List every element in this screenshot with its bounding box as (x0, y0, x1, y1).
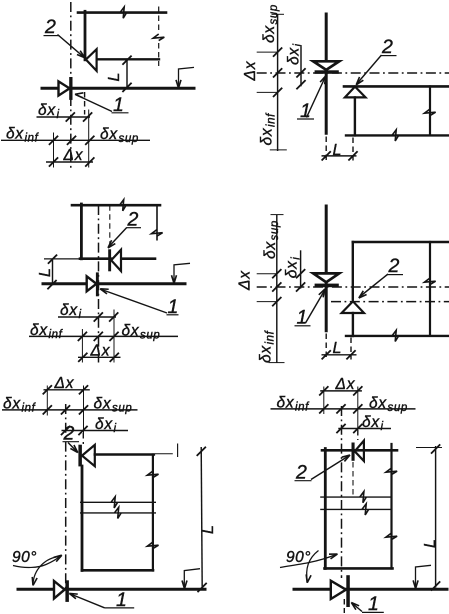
svg-text:i: i (114, 423, 117, 435)
svg-text:δx: δx (94, 395, 112, 412)
svg-text:inf: inf (22, 402, 37, 414)
svg-text:sup: sup (269, 220, 281, 240)
svg-text:δx: δx (6, 126, 24, 143)
svg-text:inf: inf (265, 329, 277, 344)
svg-text:L: L (333, 340, 342, 357)
svg-text:L: L (333, 142, 342, 159)
svg-text:sup: sup (140, 329, 160, 341)
svg-text:Δx: Δx (90, 343, 111, 360)
svg-text:sup: sup (112, 402, 132, 414)
svg-text:90°: 90° (12, 549, 37, 566)
svg-text:L: L (200, 525, 217, 534)
svg-text:δx: δx (362, 414, 380, 431)
svg-text:inf: inf (25, 133, 40, 145)
svg-text:inf: inf (295, 401, 310, 413)
svg-text:sup: sup (388, 402, 408, 414)
svg-text:δx: δx (262, 241, 279, 259)
svg-text:inf: inf (266, 112, 278, 127)
svg-text:δx: δx (259, 127, 276, 145)
svg-text:L: L (37, 268, 54, 277)
svg-text:δx: δx (95, 416, 113, 433)
svg-text:Δx: Δx (237, 270, 254, 291)
svg-text:L: L (422, 539, 439, 548)
svg-text:i: i (79, 309, 82, 321)
svg-text:Δx: Δx (242, 60, 259, 81)
svg-text:2: 2 (381, 36, 393, 58)
svg-text:L: L (106, 73, 123, 82)
svg-text:1: 1 (368, 593, 379, 614)
svg-text:δx: δx (286, 47, 303, 65)
svg-text:inf: inf (49, 329, 64, 341)
svg-text:δx: δx (38, 102, 56, 119)
svg-text:Δx: Δx (335, 376, 356, 393)
svg-text:δx: δx (100, 126, 118, 143)
svg-text:δx: δx (258, 345, 275, 363)
svg-text:δx: δx (122, 322, 140, 339)
svg-text:i: i (57, 109, 60, 121)
svg-text:i: i (381, 421, 384, 433)
svg-text:sup: sup (268, 4, 280, 24)
svg-text:δx: δx (284, 260, 301, 278)
svg-text:δx: δx (30, 322, 48, 339)
svg-text:2: 2 (44, 16, 56, 38)
svg-text:Δx: Δx (63, 147, 84, 164)
svg-text:2: 2 (388, 255, 400, 277)
svg-text:δx: δx (60, 302, 78, 319)
svg-text:δx: δx (261, 25, 278, 43)
svg-text:δx: δx (3, 395, 21, 412)
svg-text:i: i (293, 43, 305, 46)
svg-text:δx: δx (369, 395, 387, 412)
svg-text:i: i (291, 257, 303, 260)
svg-text:Δx: Δx (54, 375, 75, 392)
svg-text:δx: δx (277, 394, 295, 411)
svg-text:sup: sup (119, 133, 139, 145)
